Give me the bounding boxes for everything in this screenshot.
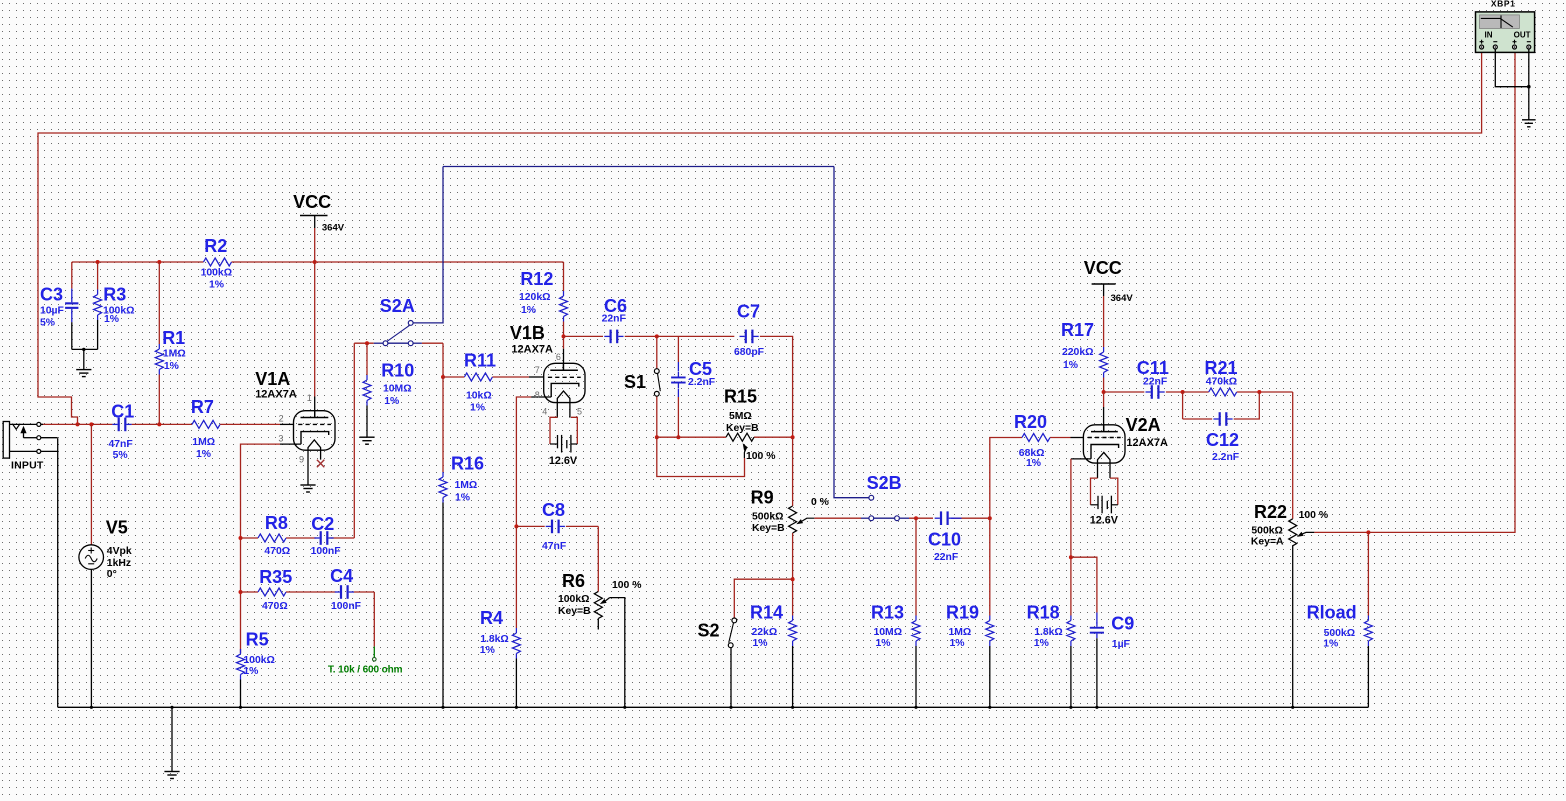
wire VCC bus y=262 [72, 261, 564, 263]
svg-text:Rload: Rload [1307, 603, 1357, 623]
wire V1B plate lead [563, 336, 565, 370]
wire S2B to C10 [900, 517, 933, 519]
svg-text:C12: C12 [1206, 430, 1239, 450]
svg-text:500kΩ: 500kΩ [1324, 628, 1355, 639]
wire C12 left drop [1183, 392, 1213, 419]
svg-text:22kΩ: 22kΩ [752, 627, 778, 638]
pin 5 V1B [577, 407, 582, 417]
svg-text:C9: C9 [1111, 614, 1134, 634]
label R10 [381, 361, 414, 381]
label R17 [1061, 320, 1094, 340]
svg-text:22nF: 22nF [1143, 377, 1167, 388]
wire R9 wiper to S2B [814, 517, 869, 519]
label R2 values [201, 268, 232, 291]
tube V1B body [544, 363, 585, 402]
svg-text:1µF: 1µF [1112, 639, 1130, 650]
wire bus to R3 [97, 262, 99, 290]
label R22 percent [1299, 510, 1328, 521]
wire node to R21 [1183, 391, 1209, 393]
svg-text:1%: 1% [104, 314, 119, 325]
label C12 value [1212, 452, 1239, 463]
label R6 values [558, 594, 591, 617]
svg-text:10kΩ: 10kΩ [466, 390, 492, 401]
label R19 [946, 602, 979, 622]
label S2A [380, 296, 415, 316]
svg-text:6: 6 [556, 352, 561, 362]
heater supply V1B [550, 417, 577, 452]
wire R12 to V1B plate node [563, 322, 565, 337]
svg-text:47nF: 47nF [542, 541, 566, 552]
resistor R19 [986, 616, 994, 647]
label C12 [1206, 430, 1239, 450]
switch S2 [728, 618, 736, 648]
wire R3 to ground bar [97, 320, 99, 349]
label C8 value [542, 541, 566, 552]
resistor R2 [204, 258, 232, 266]
wire VCC1 to V1A plate [314, 216, 316, 418]
svg-text:R20: R20 [1014, 412, 1047, 432]
tube V1B grid [548, 376, 581, 378]
pin 6 V1B [556, 352, 561, 362]
svg-text:R19: R19 [946, 602, 979, 622]
capacitor C3 [65, 298, 78, 314]
svg-text:R17: R17 [1061, 320, 1094, 340]
ground symbol R10 [359, 437, 374, 444]
svg-text:12AX7A: 12AX7A [255, 389, 297, 401]
junction dot C8 node [514, 524, 518, 528]
wire XBP1 IN- to OUT- [1495, 49, 1529, 120]
pin 9 V1A [299, 454, 304, 464]
label C9 [1111, 614, 1134, 634]
svg-text:1: 1 [307, 393, 312, 403]
label R21 [1205, 358, 1238, 378]
wire blue net to S2B [834, 167, 869, 498]
svg-text:0°: 0° [107, 569, 117, 580]
svg-text:22nF: 22nF [602, 314, 626, 325]
label V1B [510, 323, 545, 343]
label C11 [1137, 358, 1169, 378]
label R11 values [466, 390, 492, 413]
svg-text:364V: 364V [322, 223, 345, 234]
label V2A type [1126, 437, 1168, 449]
potentiometer R9 [789, 506, 815, 533]
svg-text:4Vpk: 4Vpk [107, 546, 132, 557]
label R15 [724, 387, 757, 407]
svg-text:5%: 5% [40, 318, 55, 329]
svg-text:C3: C3 [40, 284, 63, 304]
wire Rload to bus [1367, 646, 1369, 707]
label R16 [451, 454, 484, 474]
svg-text:9: 9 [299, 454, 304, 464]
source V5 [79, 545, 104, 570]
junction dot R1 bottom [157, 422, 161, 426]
label C2 [311, 514, 334, 534]
svg-text:C8: C8 [542, 500, 565, 520]
label R15 values [726, 411, 759, 434]
wire R6 lower stub [597, 619, 599, 630]
junction dot R15 right [791, 435, 795, 439]
label R13 values [874, 627, 903, 649]
wire R22 to bus [1292, 545, 1294, 707]
label R22 values [1251, 526, 1284, 548]
svg-text:T. 10k / 600 ohm: T. 10k / 600 ohm [328, 665, 403, 676]
potentiometer R15 [726, 433, 754, 458]
capacitor C8 [546, 520, 565, 534]
svg-text:2: 2 [279, 414, 284, 424]
svg-text:100nF: 100nF [331, 601, 361, 612]
label R2 [204, 236, 227, 256]
wire R15 wiper loop [657, 437, 745, 476]
label C4 value [331, 601, 361, 612]
wire S1 to R15 row [656, 396, 658, 437]
label R7 values [192, 437, 215, 460]
svg-text:R6: R6 [562, 571, 585, 591]
switch S2A [383, 321, 413, 346]
wire R1 to input row [158, 375, 160, 425]
wire R13 column [915, 518, 917, 615]
wire R11 row [443, 376, 544, 378]
svg-text:1%: 1% [243, 666, 258, 677]
label R12 [520, 269, 553, 289]
tube V2A body [1083, 425, 1125, 463]
label C1 [111, 402, 134, 422]
wire C7 node to R9 [792, 437, 794, 506]
label C7 value [734, 347, 764, 358]
switch S1 [654, 369, 660, 396]
label V5 values [107, 546, 132, 580]
resistor R14 [789, 616, 797, 647]
tube V1B cathode [551, 383, 579, 397]
heater supply V2A [1091, 478, 1118, 513]
svg-text:1%: 1% [950, 638, 965, 649]
capacitor C12 [1213, 412, 1232, 426]
wire S2B throws [874, 517, 894, 519]
wire R8 row [241, 537, 316, 539]
wire blue net top run [443, 166, 834, 168]
label S2 [698, 620, 720, 640]
wire S2A row to R11 junction [442, 343, 444, 377]
wire R7 to V1A pin2 [220, 423, 294, 425]
pin 1 V1A [307, 393, 312, 403]
label S1 [624, 372, 646, 392]
capacitor C2 [314, 531, 333, 545]
wire C8 row [516, 525, 598, 527]
wire plate node to C6 [564, 335, 604, 337]
label C2 value [311, 546, 341, 557]
svg-text:470kΩ: 470kΩ [1206, 377, 1237, 388]
svg-text:IN: IN [1485, 31, 1493, 40]
svg-text:10µF: 10µF [40, 305, 64, 316]
switch S2B [869, 495, 900, 520]
svg-text:R3: R3 [103, 284, 126, 304]
potentiometer R22 [1289, 519, 1315, 546]
svg-text:2.2nF: 2.2nF [1212, 452, 1239, 463]
junction dot V1A plate supply [313, 260, 317, 264]
svg-text:1%: 1% [470, 402, 485, 413]
svg-text:1kHz: 1kHz [107, 558, 131, 569]
label Rload [1307, 603, 1357, 623]
wire C9 to bus [1096, 638, 1098, 707]
svg-text:5%: 5% [113, 450, 128, 461]
wire R35 row [241, 591, 336, 593]
svg-text:C11: C11 [1137, 358, 1169, 378]
svg-text:100kΩ: 100kΩ [243, 655, 274, 666]
svg-text:500kΩ: 500kΩ [752, 512, 783, 523]
wire C6 to S1 node [625, 335, 657, 337]
svg-text:1MΩ: 1MΩ [192, 437, 215, 448]
svg-text:R7: R7 [191, 397, 214, 417]
wire C4 to output tap [354, 592, 375, 658]
svg-text:C10: C10 [928, 530, 961, 550]
svg-text:R14: R14 [750, 602, 783, 622]
wire node to C5 [677, 336, 679, 371]
label R11 [464, 351, 496, 371]
wire R6 wiper down [610, 598, 625, 708]
svg-text:1.8kΩ: 1.8kΩ [480, 634, 509, 645]
tube V2A plate [1091, 425, 1118, 432]
svg-text:100nF: 100nF [311, 546, 341, 557]
svg-text:100kΩ: 100kΩ [201, 268, 232, 279]
svg-text:R16: R16 [451, 454, 484, 474]
label V2A [1126, 415, 1161, 435]
label R3 values [103, 305, 134, 325]
svg-text:12AX7A: 12AX7A [1126, 437, 1168, 449]
tube V2A cathode [1091, 445, 1119, 459]
svg-text:500kΩ: 500kΩ [1251, 526, 1282, 537]
junction dot C9 branch [1069, 555, 1073, 559]
label XBP1 IN [1485, 31, 1493, 40]
pin 2 V1A [279, 414, 284, 424]
label C5 value [688, 377, 715, 388]
capacitor C5 [671, 372, 686, 388]
svg-text:Key=B: Key=B [726, 423, 759, 434]
svg-text:S2: S2 [698, 620, 720, 640]
wire bus to R1 [158, 262, 160, 344]
label R10 values [383, 384, 412, 407]
label R1 values [163, 349, 186, 372]
capacitor C10 [935, 511, 962, 525]
label R18 [1027, 602, 1060, 622]
label R12 values [519, 292, 550, 316]
svg-text:C7: C7 [737, 302, 760, 322]
svg-text:S2B: S2B [867, 473, 902, 493]
wire S1 node to C7 [657, 335, 735, 337]
wire R10 to ground [366, 406, 368, 438]
svg-text:R1: R1 [162, 328, 185, 348]
wire R18 to bus [1070, 646, 1072, 707]
label R4 values [480, 634, 509, 656]
junction dot R15 left [655, 435, 659, 439]
svg-text:V1A: V1A [255, 369, 290, 389]
wire S2 branch [734, 579, 792, 618]
label C11 value [1143, 377, 1167, 388]
svg-text:R15: R15 [724, 387, 757, 407]
wire XBP1 IN+ feedback to input node [38, 49, 1482, 424]
label V1B type [511, 343, 553, 355]
svg-text:R4: R4 [480, 608, 503, 628]
label R8 value [264, 546, 290, 557]
junction dot R35 row [239, 590, 243, 594]
svg-text:Key=B: Key=B [752, 523, 785, 534]
svg-text:OUT: OUT [1514, 31, 1531, 40]
label output tap [328, 665, 403, 676]
resistor R1 [155, 344, 163, 375]
svg-text:1%: 1% [196, 449, 211, 460]
svg-text:120kΩ: 120kΩ [519, 292, 550, 303]
label INPUT [11, 460, 44, 472]
label R15 percent [746, 451, 775, 462]
no-connect X V1A [317, 460, 324, 467]
junction dot C12 right [1257, 390, 1261, 394]
wire V1B pin8 to C8 node [516, 397, 551, 526]
junction dot C12 left [1181, 390, 1185, 394]
svg-text:1%: 1% [1026, 458, 1041, 469]
label R5 [246, 629, 269, 649]
wire C1 to R7 [132, 423, 192, 425]
svg-text:22nF: 22nF [934, 552, 958, 563]
wire VCC2 stem [1103, 284, 1105, 347]
label R14 [750, 602, 783, 622]
label V1A [255, 369, 290, 389]
svg-text:INPUT: INPUT [11, 460, 44, 472]
wire C3-R3 ground bar [72, 348, 98, 350]
svg-text:S1: S1 [624, 372, 646, 392]
resistor R3 [94, 290, 102, 321]
svg-text:Key=A: Key=A [1251, 536, 1284, 547]
label R14 values [752, 627, 778, 649]
label V5 [106, 518, 128, 538]
label R6 percent [612, 580, 641, 591]
wire node to S1 [656, 336, 658, 368]
svg-text:10MΩ: 10MΩ [383, 384, 412, 395]
svg-text:470Ω: 470Ω [262, 601, 288, 612]
wire jack sleeve to bus [57, 438, 59, 707]
wire R11 junction down to R16 [442, 377, 444, 472]
label R7 [191, 397, 214, 417]
wire R20 to V2A grid [1050, 437, 1083, 439]
svg-text:100 %: 100 % [1299, 510, 1328, 521]
ground symbol main [164, 772, 179, 779]
wire V5 minus to bus [90, 569, 92, 707]
junction dot R19/R20 node [988, 516, 992, 520]
label C5 [689, 359, 712, 379]
pin 3 V1A [278, 434, 283, 444]
label VCC2 [1084, 258, 1122, 278]
tube V2A grid [1088, 437, 1121, 439]
label VCC2 voltage [1111, 293, 1134, 304]
svg-text:5MΩ: 5MΩ [729, 411, 752, 422]
junction C3-R3 ground [82, 348, 85, 351]
svg-text:R12: R12 [520, 269, 553, 289]
svg-text:1.8kΩ: 1.8kΩ [1034, 627, 1063, 638]
resistor R12 [560, 291, 568, 322]
wire C8 to R6 [597, 526, 599, 591]
svg-text:220kΩ: 220kΩ [1062, 347, 1093, 358]
wire bus corner to R12 [563, 262, 565, 291]
resistor R17 [1100, 347, 1108, 378]
svg-text:R35: R35 [259, 567, 292, 587]
svg-text:100 %: 100 % [746, 451, 775, 462]
wire R9 to R14 [792, 533, 794, 616]
svg-text:1%: 1% [521, 305, 536, 316]
label C10 value [934, 552, 958, 563]
svg-text:1MΩ: 1MΩ [163, 349, 186, 360]
svg-text:12.6V: 12.6V [1090, 515, 1119, 527]
label R1 [162, 328, 185, 348]
label R20 values [1019, 448, 1045, 469]
label R16 values [455, 480, 478, 504]
svg-text:100 %: 100 % [612, 580, 641, 591]
wire R5 to bus [240, 680, 242, 708]
svg-text:1%: 1% [1323, 639, 1338, 650]
ground bus wire [58, 706, 1369, 708]
label R35 value [262, 601, 288, 612]
wire node to C11 [1104, 391, 1145, 393]
XBP1 terminals [1480, 45, 1531, 49]
resistor R11 [464, 373, 492, 381]
svg-text:1%: 1% [480, 645, 495, 656]
svg-text:S2A: S2A [380, 296, 415, 316]
svg-text:VCC: VCC [1084, 258, 1122, 278]
wire C7 to right riser [760, 336, 793, 437]
junction dot input/feedback [76, 422, 80, 426]
label heater V1B voltage [549, 455, 578, 467]
svg-text:C4: C4 [330, 566, 353, 586]
capacitor C11 [1146, 385, 1165, 399]
junction dot S2 branch [791, 577, 795, 581]
label C6 value [602, 314, 626, 325]
wire C3 to ground bar [71, 312, 73, 349]
label R21 value [1206, 377, 1237, 388]
wire C5 to R15 row [677, 389, 679, 438]
svg-text:4: 4 [542, 407, 547, 417]
wire V2A plate lead [1103, 392, 1105, 432]
svg-text:V1B: V1B [510, 323, 545, 343]
label R18 values [1034, 627, 1063, 649]
wire ground stem C3 [83, 349, 85, 369]
svg-text:VCC: VCC [293, 192, 331, 212]
wire S2A to R10 [366, 343, 368, 375]
junction dots on ground bus [90, 706, 1294, 709]
tube V1B heater legs [557, 391, 570, 418]
junction dot C5 bottom [676, 435, 680, 439]
svg-text:1%: 1% [1034, 638, 1049, 649]
label C6 [604, 296, 627, 316]
svg-text:Key=B: Key=B [558, 606, 591, 617]
label XBP1 OUT [1514, 31, 1531, 40]
svg-text:C2: C2 [311, 514, 334, 534]
svg-text:47nF: 47nF [109, 439, 133, 450]
svg-text:680pF: 680pF [734, 347, 764, 358]
label R20 [1014, 412, 1047, 432]
svg-text:12.6V: 12.6V [549, 455, 578, 467]
tube V1A heater legs [308, 440, 321, 485]
wire V5 to input row [90, 424, 92, 545]
svg-text:R22: R22 [1254, 502, 1287, 522]
svg-text:XBP1: XBP1 [1491, 0, 1516, 8]
svg-text:2.2nF: 2.2nF [688, 377, 715, 388]
ground bus stem [171, 707, 173, 771]
resistor R8 [258, 534, 286, 542]
svg-text:3: 3 [278, 434, 283, 444]
svg-text:12AX7A: 12AX7A [511, 343, 553, 355]
label VCC1 voltage [322, 223, 345, 234]
resistor R13 [912, 616, 920, 647]
svg-text:1%: 1% [876, 638, 891, 649]
pin 4 V1B [542, 407, 547, 417]
resistor R20 [1022, 434, 1050, 442]
capacitor C6 [604, 330, 623, 344]
